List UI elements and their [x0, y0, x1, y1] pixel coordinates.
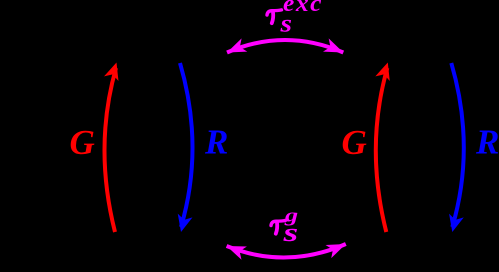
bottom ground double arrow (magenta) [224, 237, 349, 259]
svg-text:s: s [282, 219, 298, 248]
tau glyph (drawn) [267, 10, 282, 23]
label tau_s^exc [267, 0, 323, 37]
arrow G2 (red, up, right pair) [375, 60, 395, 232]
svg-text:G: G [70, 123, 95, 162]
label tau_s^g [271, 205, 298, 248]
svg-text:s: s [279, 10, 292, 37]
top exchange double arrow (magenta) [224, 38, 346, 59]
svg-text:G: G [342, 123, 367, 162]
arrow G1 (red, up, left pair) [104, 60, 124, 232]
tau glyph (drawn) [271, 220, 286, 233]
svg-text:R: R [475, 123, 499, 162]
arrow R2 (blue, down, right pair) [445, 63, 464, 234]
arrow R1 (blue, down, left pair) [174, 63, 193, 234]
svg-text:R: R [204, 123, 228, 162]
